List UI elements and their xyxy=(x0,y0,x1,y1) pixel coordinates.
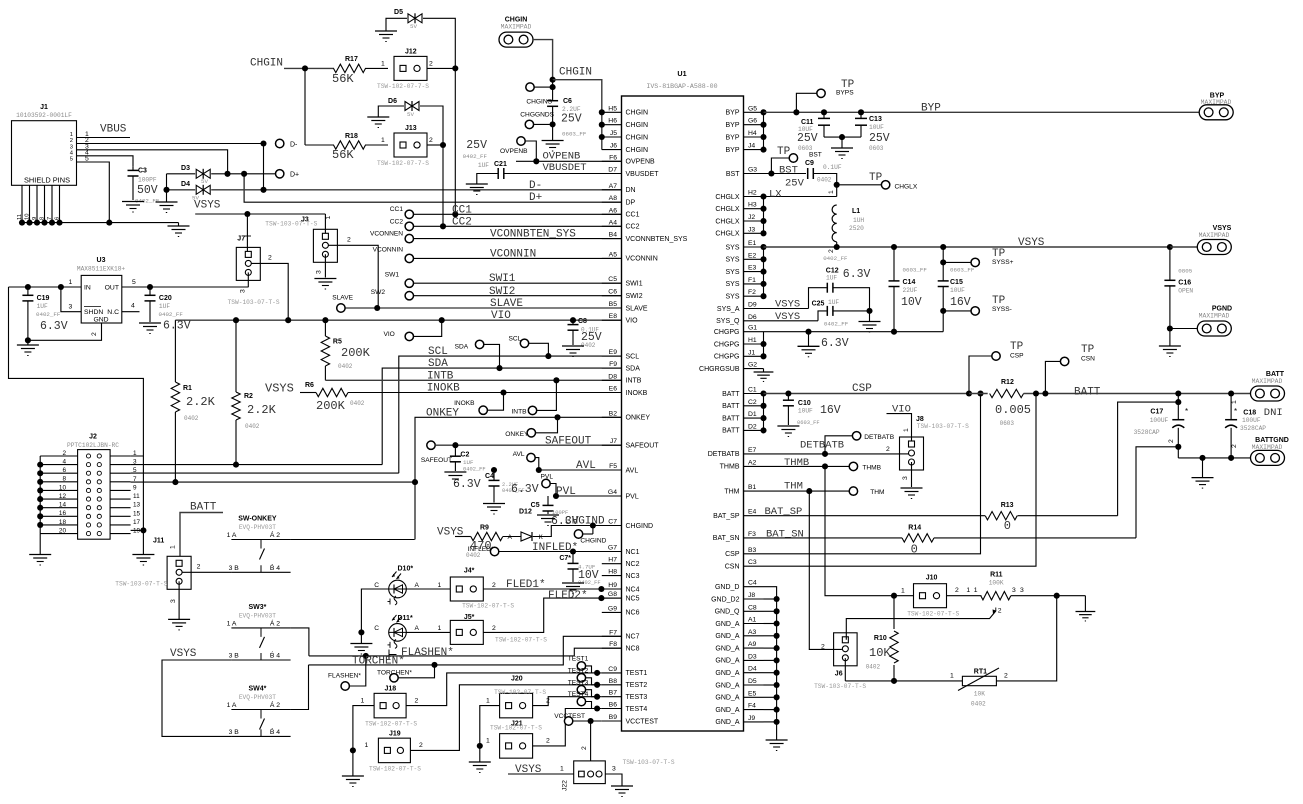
terminal SCL xyxy=(509,336,529,348)
svg-text:C2: C2 xyxy=(748,399,757,406)
svg-text:25V: 25V xyxy=(785,178,805,190)
capacitor C5 xyxy=(531,496,579,528)
terminal SAFEOUT xyxy=(421,441,452,464)
connector J22 xyxy=(562,759,675,791)
svg-text:A: A xyxy=(508,534,513,541)
wire BST row xyxy=(764,173,807,175)
svg-text:N.C: N.C xyxy=(107,309,119,316)
svg-text:10K: 10K xyxy=(974,691,985,698)
wire R9 stub xyxy=(455,536,471,538)
junction VSYS pad xyxy=(1167,244,1173,250)
resistor R1 xyxy=(171,320,215,482)
net label CC1 xyxy=(452,205,472,217)
wire VSYS J22 xyxy=(508,766,574,775)
connector J8 xyxy=(900,416,970,470)
wire J1 pin2 to D- xyxy=(77,143,265,145)
junction C19 gnd xyxy=(25,337,31,343)
wire CHGIN to H5 xyxy=(553,80,602,150)
capacitor C2 xyxy=(450,445,486,491)
junction J12 CC1 net xyxy=(452,65,458,71)
svg-text:5V: 5V xyxy=(407,111,414,118)
terminal TORCHEN xyxy=(377,670,412,683)
svg-text:1: 1 xyxy=(486,738,490,745)
junctions BYP xyxy=(760,109,766,152)
wire INTB row xyxy=(325,379,621,381)
svg-text:INTB: INTB xyxy=(427,370,454,382)
wire D6 cathode xyxy=(420,106,443,145)
svg-text:A2: A2 xyxy=(748,459,757,466)
svg-text:2: 2 xyxy=(546,738,550,745)
svg-text:G9: G9 xyxy=(608,605,617,612)
svg-text:CHGPG: CHGPG xyxy=(714,341,740,348)
svg-text:CHGPG: CHGPG xyxy=(714,354,740,361)
pin 5 U3 xyxy=(132,279,136,286)
pin 3 J8 xyxy=(902,476,909,480)
wire FLED1 row xyxy=(484,582,622,589)
pin B9 VCCTEST xyxy=(602,714,659,725)
net label SDA xyxy=(428,358,448,370)
svg-text:C7: C7 xyxy=(608,519,617,526)
net label VSYS d4 xyxy=(194,200,221,212)
svg-text:1: 1 xyxy=(381,137,385,144)
wire DP down xyxy=(244,174,621,202)
pin E2 SYS xyxy=(725,252,763,263)
terminal FLASHEN xyxy=(328,673,361,691)
pin D6 SYS_Q xyxy=(716,314,763,325)
svg-text:FLED2*: FLED2* xyxy=(548,590,588,602)
svg-text:CHGIND: CHGIND xyxy=(626,523,654,530)
connector J6 xyxy=(814,633,866,690)
svg-text:56K: 56K xyxy=(332,148,354,162)
svg-text:D5: D5 xyxy=(748,678,757,685)
svg-text:VSYS: VSYS xyxy=(1018,237,1045,249)
svg-text:C2: C2 xyxy=(460,452,469,459)
junction VCCTEST xyxy=(588,718,594,724)
svg-text:DETBATB: DETBATB xyxy=(864,434,895,441)
resistor R18 xyxy=(332,133,366,162)
junction D3 J1pin3 xyxy=(224,171,230,177)
svg-text:E9: E9 xyxy=(609,349,618,356)
wire D6 anode xyxy=(378,106,404,117)
wire SDA row xyxy=(382,368,621,465)
svg-text:BYP: BYP xyxy=(921,103,941,115)
svg-text:GND_D: GND_D xyxy=(715,584,740,591)
wire shield bus xyxy=(22,222,179,224)
wire J19 pin2 xyxy=(410,685,597,751)
svg-text:18: 18 xyxy=(59,519,67,526)
wire TP SYSS+ xyxy=(943,261,971,263)
svg-text:3 B: 3 B xyxy=(229,565,240,572)
svg-text:2: 2 xyxy=(955,587,959,594)
wire R6 left stub xyxy=(300,392,316,394)
pin 1 L1 xyxy=(828,190,835,194)
pin 2 J3 xyxy=(347,237,351,244)
svg-text:TSW-102-07-T-S: TSW-102-07-T-S xyxy=(490,725,542,732)
svg-text:SDA: SDA xyxy=(428,358,448,370)
junction D4 gnd xyxy=(163,187,169,193)
connector J10 xyxy=(907,575,959,618)
pin C1 BATT xyxy=(722,387,763,398)
pin E3 SYS xyxy=(725,265,763,276)
svg-text:2: 2 xyxy=(1168,439,1175,443)
wire AVL row xyxy=(539,469,622,471)
wire SAFEOUT row xyxy=(435,444,621,446)
terminal SLAVE xyxy=(332,295,353,313)
svg-text:3528CAP: 3528CAP xyxy=(1134,429,1160,436)
svg-text:A6: A6 xyxy=(609,207,618,214)
svg-text:1: 1 xyxy=(438,625,442,632)
svg-text:SYS: SYS xyxy=(725,269,739,276)
pad BATT MAXIMPAD xyxy=(1251,371,1285,401)
junction CHGIND tap xyxy=(590,522,596,528)
svg-text:MAXIMPAD: MAXIMPAD xyxy=(501,24,532,31)
pin B8 TEST2 xyxy=(602,678,648,689)
junction J1 pin5 bus xyxy=(106,220,112,226)
junction TEST4 xyxy=(594,705,600,711)
svg-text:VCONNIN: VCONNIN xyxy=(490,249,536,261)
svg-text:2: 2 xyxy=(268,255,272,262)
svg-text:J22: J22 xyxy=(562,780,569,791)
net label VIO xyxy=(491,310,511,322)
svg-text:C: C xyxy=(374,625,379,632)
pin C5 SWI1 xyxy=(602,276,643,287)
svg-text:200K: 200K xyxy=(341,346,371,360)
svg-text:SCL: SCL xyxy=(428,346,448,358)
svg-text:J1: J1 xyxy=(40,104,48,111)
svg-text:NC6: NC6 xyxy=(626,610,640,617)
connector J13 xyxy=(377,125,429,167)
svg-text:56K: 56K xyxy=(332,72,354,86)
svg-text:15: 15 xyxy=(133,510,141,517)
net label CHGIN u1 xyxy=(559,67,592,79)
junction J19 pin1 xyxy=(350,747,356,753)
svg-text:VCONNBTEN_SYS: VCONNBTEN_SYS xyxy=(626,236,688,243)
wire J18 pin1 xyxy=(353,706,374,751)
svg-text:F3: F3 xyxy=(748,531,756,538)
junction SLAVE J3 xyxy=(374,305,380,311)
svg-text:6: 6 xyxy=(62,467,66,474)
net label BAT_SN xyxy=(766,529,804,541)
svg-text:SLAVE: SLAVE xyxy=(626,305,648,312)
svg-text:11: 11 xyxy=(17,214,23,220)
junction J21 pin1 xyxy=(477,743,483,749)
wire C12 link xyxy=(809,288,827,309)
svg-text:CC2: CC2 xyxy=(390,219,404,226)
wire J7 pin2 xyxy=(251,263,288,320)
svg-text:1: 1 xyxy=(133,450,137,457)
junction R5 top xyxy=(322,317,328,323)
svg-text:Á 2: Á 2 xyxy=(270,618,280,627)
svg-text:C8: C8 xyxy=(748,604,757,611)
svg-text:NC4: NC4 xyxy=(626,586,640,593)
junction AVL xyxy=(536,467,542,473)
svg-text:THMB: THMB xyxy=(862,465,881,472)
ground C20 xyxy=(139,323,161,334)
svg-text:0.1UF: 0.1UF xyxy=(823,164,842,171)
svg-text:GND_A: GND_A xyxy=(715,719,739,726)
svg-text:H6: H6 xyxy=(608,118,617,125)
junction C7star xyxy=(570,548,576,554)
svg-text:3: 3 xyxy=(902,476,909,480)
wire R11 right xyxy=(1011,595,1086,597)
ground J2 pin19 xyxy=(132,555,154,566)
svg-text:2: 2 xyxy=(828,249,835,253)
svg-text:10103592-0001LF: 10103592-0001LF xyxy=(16,112,72,119)
svg-text:J2: J2 xyxy=(748,214,755,221)
svg-text:G1: G1 xyxy=(748,325,757,332)
svg-text:R5: R5 xyxy=(333,339,342,346)
wire SYS_Q row xyxy=(764,320,819,322)
net label SCL xyxy=(428,346,448,358)
terminal SDA xyxy=(455,340,484,350)
svg-text:SWI1: SWI1 xyxy=(626,281,643,288)
svg-text:E4: E4 xyxy=(748,509,757,516)
resistor R9 xyxy=(466,525,503,560)
terminal TP SYSS- xyxy=(971,295,1012,315)
net label 6.3V chgpg xyxy=(821,337,849,350)
svg-text:B3: B3 xyxy=(748,547,757,554)
junction THMB xyxy=(822,463,828,469)
pin J2 CHGLX xyxy=(715,214,763,225)
capacitor C3 xyxy=(128,166,160,204)
net label VSYS sysa xyxy=(775,299,800,311)
wire CHGPG bus xyxy=(763,332,765,357)
wire J2 pin19 link xyxy=(131,456,144,555)
pin C9 TEST1 xyxy=(602,666,648,677)
junction C14 bottom xyxy=(891,329,897,335)
svg-text:J5*: J5* xyxy=(464,614,475,621)
resistor R10 xyxy=(866,596,899,681)
wire PGND pad xyxy=(1170,328,1197,330)
svg-text:0805: 0805 xyxy=(1178,268,1192,275)
svg-text:C1: C1 xyxy=(748,387,757,394)
net label VBUS xyxy=(100,124,127,136)
svg-text:A9: A9 xyxy=(748,641,757,648)
capacitor C15 xyxy=(938,247,975,332)
svg-text:MAX8511EXK18+: MAX8511EXK18+ xyxy=(77,266,126,273)
net label BATT right xyxy=(1074,387,1101,399)
svg-text:BYP: BYP xyxy=(725,134,739,141)
junction TORCHEN tap xyxy=(431,662,437,668)
capacitor C12 xyxy=(823,255,870,293)
svg-text:F7: F7 xyxy=(609,629,617,636)
svg-text:J7: J7 xyxy=(610,438,617,445)
connector J18 xyxy=(365,686,417,728)
wire TP CHGLX xyxy=(837,184,882,186)
wire BAT_SN row xyxy=(764,537,1137,539)
svg-text:TSW-102-07-T-S: TSW-102-07-T-S xyxy=(907,611,959,618)
wire D10 cathode xyxy=(361,589,388,632)
net label BST xyxy=(779,165,805,190)
svg-text:2: 2 xyxy=(62,450,66,457)
svg-text:BAT_SN: BAT_SN xyxy=(766,529,804,541)
svg-text:A: A xyxy=(415,582,420,589)
wire C9 to LX xyxy=(813,174,836,197)
ground BATTGND xyxy=(1192,458,1214,488)
resistor R14 xyxy=(902,525,934,557)
net label AVL xyxy=(576,460,596,472)
wire TP BYPS xyxy=(796,93,816,112)
svg-text:E6: E6 xyxy=(609,386,618,393)
wire R18 row xyxy=(305,144,388,146)
pin B7 TEST3 xyxy=(602,690,648,701)
svg-text:10V: 10V xyxy=(901,296,922,309)
svg-text:1UF: 1UF xyxy=(37,303,48,310)
svg-text:TSW-102-07-T-S: TSW-102-07-T-S xyxy=(369,766,421,773)
junction cap gnd xyxy=(839,134,845,140)
svg-text:6.3V: 6.3V xyxy=(821,337,849,350)
svg-text:H9: H9 xyxy=(608,582,617,589)
svg-text:J5: J5 xyxy=(610,130,617,137)
wire J1 shield pins xyxy=(17,185,61,222)
wire D11 anode xyxy=(406,625,450,632)
svg-text:VSYS: VSYS xyxy=(265,382,294,396)
svg-text:CSN: CSN xyxy=(1081,356,1095,363)
svg-text:F8: F8 xyxy=(609,641,617,648)
svg-text:CHGIN: CHGIN xyxy=(250,58,283,70)
junction SDA tap xyxy=(496,365,502,371)
junction LX xyxy=(834,182,840,188)
connector J21 xyxy=(490,721,542,759)
pin 3 J3 xyxy=(316,270,323,274)
svg-text:17: 17 xyxy=(133,519,141,526)
terminal CC1 xyxy=(390,206,414,219)
svg-text:SCL: SCL xyxy=(509,336,522,343)
svg-text:0603_FF: 0603_FF xyxy=(562,131,587,138)
svg-text:VCONNEN: VCONNEN xyxy=(370,231,403,238)
svg-text:C10: C10 xyxy=(798,400,811,407)
wire U3 SHDN xyxy=(61,287,81,312)
pin G8 NC5 xyxy=(602,591,640,602)
terminal INTB xyxy=(511,406,536,415)
svg-text:C13: C13 xyxy=(869,116,882,123)
junction INOKB tap xyxy=(500,389,506,395)
svg-text:2: 2 xyxy=(492,582,496,589)
svg-text:1UF: 1UF xyxy=(478,162,489,169)
terminal TEST3 xyxy=(568,679,602,696)
wire BAT_SP up xyxy=(1118,402,1179,516)
svg-text:EVQ-PHV03T: EVQ-PHV03T xyxy=(239,524,276,531)
svg-text:OUT: OUT xyxy=(105,285,119,292)
svg-text:B7: B7 xyxy=(609,690,618,697)
net label VSYS sysq xyxy=(775,311,800,323)
svg-text:TEST3: TEST3 xyxy=(626,694,648,701)
svg-text:5V: 5V xyxy=(410,23,417,30)
svg-text:1: 1 xyxy=(1231,400,1238,404)
wire C17 bottom xyxy=(1177,447,1179,458)
terminal CHGINS xyxy=(526,83,553,106)
ground J20 J21 xyxy=(469,746,491,773)
wire OVPENB row xyxy=(516,160,622,162)
wire C6 stem xyxy=(552,80,554,101)
svg-text:2: 2 xyxy=(91,332,98,336)
junction C17 SP xyxy=(1175,399,1181,405)
svg-text:NC8: NC8 xyxy=(626,646,640,653)
svg-text:VBUSDET: VBUSDET xyxy=(626,171,660,178)
svg-text:6: 6 xyxy=(54,217,60,220)
pin A8 DP xyxy=(602,195,636,206)
wire VSYS row right xyxy=(764,246,1170,248)
svg-text:BATT: BATT xyxy=(722,391,740,398)
svg-text:3: 3 xyxy=(1012,587,1016,594)
svg-text:B́ 4: B́ 4 xyxy=(270,651,280,660)
svg-text:B9: B9 xyxy=(609,714,618,721)
svg-text:6.3V: 6.3V xyxy=(163,320,191,333)
pin H7 NC2 xyxy=(602,557,640,568)
svg-text:C12: C12 xyxy=(826,268,839,275)
pin A6 CC1 xyxy=(602,207,640,218)
svg-text:TSW-102-07-7-S: TSW-102-07-7-S xyxy=(377,83,429,90)
junction U3 SHDN tap xyxy=(58,284,64,290)
wire THMB row xyxy=(764,465,850,467)
svg-text:C15: C15 xyxy=(950,279,963,286)
svg-text:B8: B8 xyxy=(609,678,618,685)
junction ONKEY J2p7 xyxy=(412,479,418,485)
svg-text:0402: 0402 xyxy=(866,664,881,671)
ground J3 xyxy=(314,279,336,290)
inductor L1 xyxy=(832,205,864,242)
svg-text:2: 2 xyxy=(429,137,433,144)
svg-text:SYS: SYS xyxy=(725,281,739,288)
svg-text:AVL: AVL xyxy=(576,460,596,472)
wire U3 GND xyxy=(28,323,102,340)
pin 1 J8 xyxy=(903,428,910,432)
junction R2 top xyxy=(233,317,239,323)
wire FLASHEN circle xyxy=(349,656,365,686)
pin F9 SDA xyxy=(602,361,640,372)
ground J22 xyxy=(611,786,633,797)
svg-text:J1: J1 xyxy=(748,349,755,356)
wire J1 pin5 to shield bus xyxy=(77,162,110,223)
svg-text:D+: D+ xyxy=(529,192,542,204)
wire BAT_SP row xyxy=(764,515,1118,517)
junction R2 J2 xyxy=(233,462,239,468)
pad BYP MAXIMPAD xyxy=(1199,92,1233,120)
capacitor C20 xyxy=(145,287,191,333)
connector J11 xyxy=(115,538,191,590)
junction ONKEY tap xyxy=(554,414,560,420)
wire BATTGND row xyxy=(1178,457,1251,459)
svg-text:DETBATB: DETBATB xyxy=(800,440,844,452)
svg-text:C3: C3 xyxy=(138,168,147,175)
svg-text:0402: 0402 xyxy=(245,423,260,430)
terminal TP BST xyxy=(777,146,798,162)
svg-text:0: 0 xyxy=(1004,519,1011,533)
capacitor C8 xyxy=(568,318,602,349)
svg-text:100K: 100K xyxy=(989,580,1004,587)
svg-text:CHGLX: CHGLX xyxy=(715,231,739,238)
svg-text:J12: J12 xyxy=(405,49,417,56)
svg-text:0402: 0402 xyxy=(466,552,481,559)
svg-text:SYS_A: SYS_A xyxy=(717,306,740,313)
net label CSP xyxy=(852,383,872,395)
capacitor C19 xyxy=(22,287,67,340)
pin H9 NC4 xyxy=(602,582,640,593)
svg-text:3 B: 3 B xyxy=(229,729,240,736)
wire J2 gnd bus xyxy=(39,456,41,534)
svg-text:R17: R17 xyxy=(345,56,358,63)
svg-text:0402_FF: 0402_FF xyxy=(823,255,848,262)
pin G5 BYP xyxy=(725,105,763,116)
svg-text:C20: C20 xyxy=(159,295,172,302)
pin B5 SLAVE xyxy=(602,301,648,312)
pin C6 SWI2 xyxy=(602,289,643,300)
svg-text:SDA: SDA xyxy=(455,344,469,351)
pin labels J21 xyxy=(486,738,550,745)
svg-text:TSW-102-07-T-S: TSW-102-07-T-S xyxy=(365,721,417,728)
wire D12 to CHGIND xyxy=(533,526,622,537)
terminal CHGIND xyxy=(574,526,606,545)
